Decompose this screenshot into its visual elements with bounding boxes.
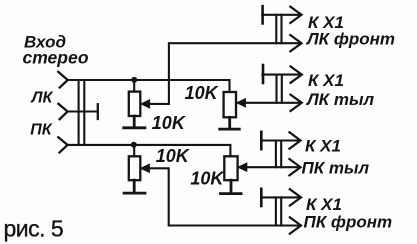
input connector boundary line 1	[78, 80, 80, 145]
input connector pin 2 (ЛК)	[58, 104, 67, 119]
ground under R1	[124, 116, 145, 128]
output 1 common wire to К Х1	[262, 14, 299, 16]
svg-text:ЛК тыл: ЛК тыл	[305, 90, 374, 109]
output 4 connector boundary line 2	[280, 197, 282, 225]
output 2 common wire to К Х1	[262, 74, 299, 76]
wire ПК line: pin3 to R4 top	[68, 145, 231, 156]
output 1 connector boundary line 1	[275, 15, 277, 43]
svg-text:ПК фронт: ПК фронт	[304, 212, 393, 231]
ground under R2	[220, 117, 240, 129]
wire R4 wiper to output ПК тыл	[238, 166, 299, 168]
chassis bar at input pin 2	[97, 104, 99, 119]
wire junction to R3 top	[133, 145, 135, 156]
wire R3 wiper down to output ПК фронт	[141, 168, 300, 225]
svg-text:ЛК: ЛК	[31, 90, 54, 107]
node junction ЛК	[131, 77, 137, 83]
R2 wiper arrow	[237, 99, 246, 107]
output connector 4 (ПК фронт) chassis bar	[260, 189, 263, 206]
output 2 connector boundary line 2	[281, 75, 283, 103]
output 3 common pin arrow	[289, 132, 300, 148]
output 1 connector boundary line 2	[280, 15, 282, 43]
output 3 connector boundary line 2	[280, 141, 282, 168]
input connector pin 3 (ПК)	[58, 137, 67, 152]
svg-text:10K: 10K	[152, 113, 187, 133]
svg-text:10K: 10K	[156, 146, 191, 166]
node junction ПК	[131, 142, 137, 148]
input connector boundary line 2	[83, 80, 85, 145]
svg-text:ЛК фронт: ЛК фронт	[305, 29, 395, 48]
svg-text:К Х1: К Х1	[305, 137, 341, 156]
resistor R1 10K (potentiometer body)	[129, 92, 141, 116]
svg-text:ПК: ПК	[30, 121, 53, 138]
output 4 signal pin arrow	[290, 217, 301, 233]
output 2 signal pin arrow	[291, 95, 302, 111]
R1 wiper arrow	[141, 100, 150, 108]
wire junction to R1 top	[133, 80, 135, 92]
output connector 2 (ЛК тыл) chassis bar	[262, 65, 265, 83]
input connector pin 1 (common)	[58, 72, 67, 88]
resistor R3 10K (potentiometer body)	[129, 156, 141, 180]
output 3 signal pin arrow	[289, 159, 300, 175]
label input "Вход стерео"	[23, 33, 89, 68]
output 4 common wire to К Х1	[261, 196, 299, 198]
R4 wiper arrow	[238, 163, 247, 171]
output connector 3 (ПК тыл) chassis bar	[260, 132, 263, 149]
wire ЛК line: pin1 to R2 top	[68, 80, 230, 92]
resistor R2 10K (potentiometer body)	[224, 92, 236, 117]
output 3 common wire to К Х1	[261, 139, 299, 141]
R3 wiper arrow	[141, 164, 150, 172]
svg-text:ПК тыл: ПК тыл	[302, 158, 370, 177]
svg-text:рис. 5: рис. 5	[4, 215, 64, 241]
wire R2 wiper to output ЛК тыл	[237, 102, 300, 104]
output connector 1 (ЛК фронт) chassis bar	[261, 6, 264, 23]
wire R1 wiper up to output ЛК фронт	[141, 43, 300, 104]
ground under R4	[221, 180, 242, 193]
output 2 connector boundary line 1	[275, 75, 277, 103]
wire pin2 to chassis bar	[68, 110, 98, 112]
output 4 connector boundary line 1	[275, 197, 277, 225]
svg-text:10K: 10K	[190, 169, 225, 189]
svg-text:стерео: стерео	[23, 47, 89, 67]
ground under R3	[124, 180, 145, 193]
svg-text:10K: 10K	[185, 83, 220, 103]
svg-text:К Х1: К Х1	[308, 71, 344, 90]
resistor R4 10K (potentiometer body)	[224, 156, 237, 180]
output 1 signal pin arrow	[290, 35, 301, 51]
output 3 connector boundary line 1	[275, 141, 277, 168]
svg-text:К Х1: К Х1	[306, 195, 342, 214]
output 4 common pin arrow	[290, 189, 301, 205]
output 1 common pin arrow	[290, 7, 301, 23]
output 2 common pin arrow	[291, 66, 302, 82]
